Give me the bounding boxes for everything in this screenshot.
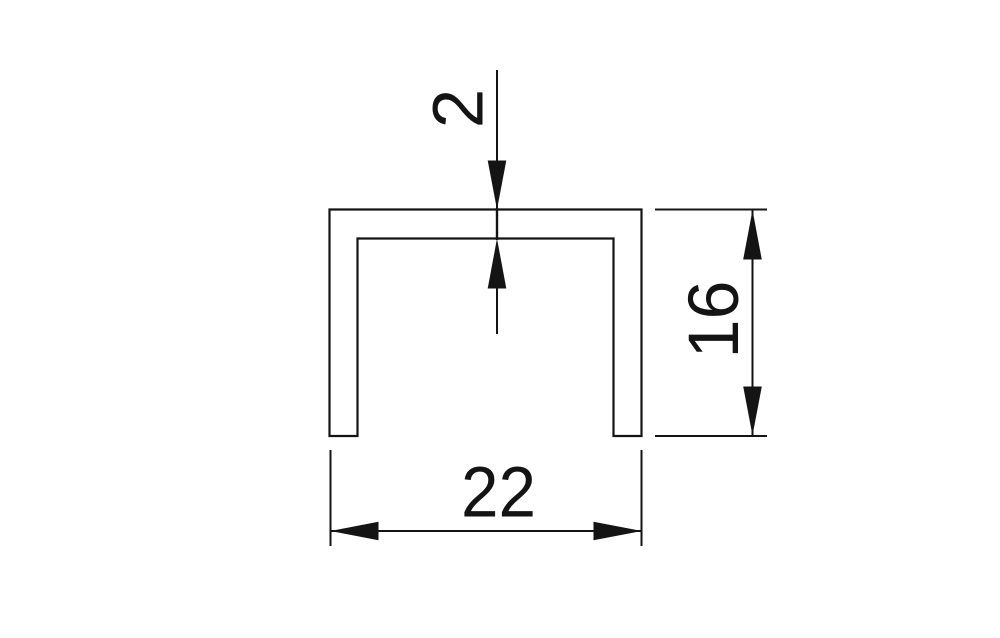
svg-text:22: 22 — [461, 454, 536, 533]
dim 22: left extension line — [330, 450, 332, 546]
dim 22: right arrowhead — [594, 522, 642, 541]
svg-text:2: 2 — [420, 89, 499, 129]
dim 2: through-wall line segment — [496, 208, 498, 240]
svg-text:16: 16 — [675, 281, 754, 359]
dim 16: bottom extension line — [655, 435, 767, 437]
dim 2: upper leader line — [496, 70, 498, 208]
dim 16: up arrowhead — [743, 210, 762, 260]
dim 22: dimension line — [331, 530, 642, 532]
dim 22: right extension line — [641, 450, 643, 546]
dim 16: dimension line — [752, 210, 754, 437]
dim 2: lower leader line — [496, 286, 498, 334]
dim 2: down arrowhead — [488, 161, 507, 210]
dim 22: left arrowhead — [331, 522, 379, 541]
dim 2: up arrowhead — [488, 239, 507, 289]
dim 16: down arrowhead — [743, 387, 762, 436]
U-channel profile outline — [330, 210, 642, 437]
dim 16: top extension line — [655, 209, 767, 211]
